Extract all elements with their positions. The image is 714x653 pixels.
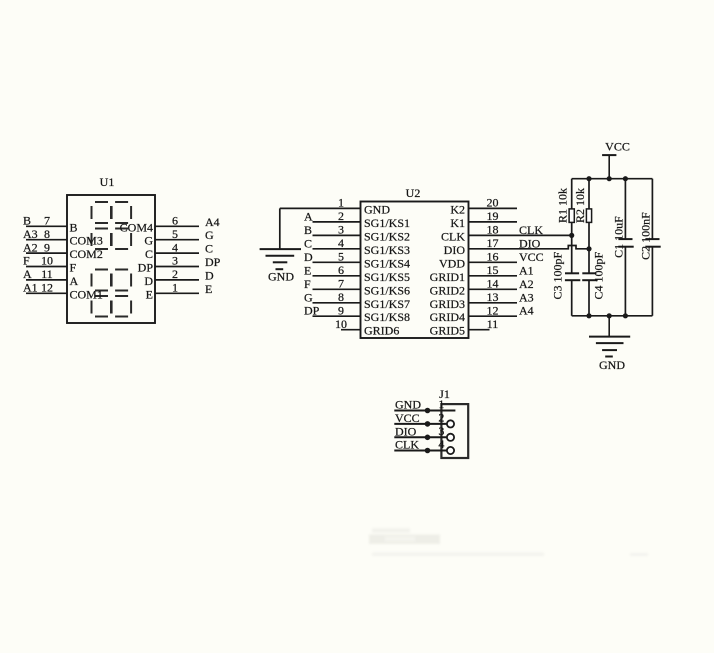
left GND label <box>268 270 294 284</box>
U2 pin number 1 <box>338 196 344 210</box>
U1 pin 5 wire (G) <box>155 239 199 241</box>
svg-text:SG1/KS6: SG1/KS6 <box>364 283 410 297</box>
U1 pin number 8 <box>44 227 50 241</box>
svg-text:1: 1 <box>338 196 344 210</box>
resistor R1 10k <box>569 179 574 236</box>
U2 pin name GND <box>364 202 390 216</box>
svg-text:C4 100pF: C4 100pF <box>592 251 606 299</box>
net label GND <box>395 398 421 412</box>
connector J1 body <box>441 404 468 458</box>
U1 pin 8 wire (COM3) <box>26 239 67 241</box>
U2 pin 18 wire (CLK) <box>469 234 572 236</box>
U2 pin number 17 <box>487 236 499 250</box>
U1 pin name COM3 <box>70 234 103 248</box>
svg-text:D: D <box>144 274 153 288</box>
net label D <box>304 250 313 264</box>
svg-text:GND: GND <box>268 270 294 284</box>
U1 pin name COM4 <box>120 220 153 234</box>
U1 pin name F <box>70 261 77 275</box>
U2 pin 3 wire (SG1/KS2) <box>313 234 361 236</box>
net label DP <box>205 255 221 269</box>
svg-text:F: F <box>23 254 30 268</box>
U2 pin 15 wire (GRID1) <box>469 275 518 277</box>
svg-text:COM2: COM2 <box>70 247 103 261</box>
svg-text:10: 10 <box>335 317 347 331</box>
U1 pin number 10 <box>41 254 53 268</box>
svg-text:GRID5: GRID5 <box>430 324 465 338</box>
U1 pin name G <box>144 234 153 248</box>
U1 pin 7 wire (B) <box>26 225 67 227</box>
svg-text:GRID4: GRID4 <box>430 310 465 324</box>
svg-text:19: 19 <box>487 209 499 223</box>
U1 pin number 1 <box>172 281 178 295</box>
svg-text:VCC: VCC <box>519 250 544 264</box>
net label F <box>304 277 311 291</box>
U1 pin name DP <box>138 261 154 275</box>
U2 reference designator <box>406 186 421 200</box>
C4 value label <box>592 251 606 299</box>
svg-text:G: G <box>144 234 153 248</box>
U2 pin name GRID3 <box>430 297 465 311</box>
svg-text:C1 10uF: C1 10uF <box>612 216 626 258</box>
U2 pin number 18 <box>487 223 499 237</box>
svg-text:10: 10 <box>41 254 53 268</box>
svg-text:9: 9 <box>338 303 344 317</box>
VCC power symbol <box>602 155 616 179</box>
net label D <box>205 268 214 282</box>
svg-text:5: 5 <box>338 250 344 264</box>
U2 pin 14 wire (GRID2) <box>469 288 518 290</box>
svg-text:B: B <box>304 223 312 237</box>
svg-text:K2: K2 <box>450 202 465 216</box>
U1 pin number 5 <box>172 227 178 241</box>
svg-text:A4: A4 <box>205 215 220 229</box>
net label A2 <box>519 277 534 291</box>
U1 pin 1 wire (E) <box>155 292 199 294</box>
U2 pin 8 wire (SG1/KS7) <box>313 302 361 304</box>
U1 pin number 4 <box>172 240 178 254</box>
net label A3 <box>519 290 534 304</box>
svg-text:C3 100pF: C3 100pF <box>551 251 565 299</box>
R2 value label <box>573 188 587 223</box>
U2 pin name SG1/KS8 <box>364 310 410 324</box>
U2 pin name DIO <box>444 243 466 257</box>
svg-text:DP: DP <box>205 255 221 269</box>
U2 pin name SG1/KS2 <box>364 229 410 243</box>
junction bottom rail at C4 <box>586 313 591 318</box>
U2 pin number 2 <box>338 209 344 223</box>
U1 pin number 9 <box>44 240 50 254</box>
R1 value label <box>555 188 569 223</box>
svg-text:VCC: VCC <box>605 140 630 154</box>
right GND label <box>599 358 625 372</box>
U2 pin number 16 <box>487 250 499 264</box>
U2 pin number 20 <box>487 196 499 210</box>
U1 seven-segment digit 4 <box>112 270 132 317</box>
net label A2 <box>23 240 38 254</box>
svg-text:F: F <box>304 277 311 291</box>
svg-text:SG1/KS1: SG1/KS1 <box>364 216 410 230</box>
net label A <box>23 267 32 281</box>
U2 pin number 11 <box>487 317 499 331</box>
svg-text:A1: A1 <box>519 263 534 277</box>
U1 reference designator <box>100 175 115 189</box>
svg-text:R1 10k: R1 10k <box>555 188 569 223</box>
svg-text:E: E <box>304 263 311 277</box>
svg-text:7: 7 <box>44 214 50 228</box>
U2 pin 7 wire (SG1/KS6) <box>313 288 361 290</box>
U2 pin 5 wire (SG1/KS4) <box>313 261 361 263</box>
U2 pin name GRID5 <box>430 324 465 338</box>
net label VCC <box>519 250 544 264</box>
U2 pin name K1 <box>450 216 465 230</box>
svg-text:GND: GND <box>364 202 390 216</box>
wire U2 pin1 to ground <box>279 208 281 249</box>
svg-text:CLK: CLK <box>519 223 543 237</box>
svg-text:U2: U2 <box>406 186 421 200</box>
svg-text:DIO: DIO <box>519 236 541 250</box>
U2 pin 10 wire (GRID6) <box>341 329 361 331</box>
svg-text:G: G <box>304 290 313 304</box>
J1 reference designator <box>439 387 450 401</box>
U2 pin 12 wire (GRID4) <box>469 315 518 317</box>
ground (right GND) <box>589 316 630 357</box>
svg-text:7: 7 <box>338 277 344 291</box>
U1 pin name C <box>145 247 153 261</box>
svg-text:12: 12 <box>487 303 499 317</box>
net label DIO <box>395 424 417 438</box>
net label DIO <box>519 236 541 250</box>
U2 pin number 4 <box>338 236 344 250</box>
junction bottom rail at C1 <box>623 313 628 318</box>
svg-text:A: A <box>304 209 313 223</box>
J1 pin number 3 <box>438 424 444 438</box>
junction top rail at R2 <box>586 176 591 181</box>
svg-text:GRID3: GRID3 <box>430 297 465 311</box>
U2 pin number 13 <box>487 290 499 304</box>
svg-text:8: 8 <box>44 227 50 241</box>
U2 pin name GRID4 <box>430 310 465 324</box>
U1 pin 3 wire (DP) <box>155 266 199 268</box>
svg-text:E: E <box>205 282 212 296</box>
net label A1 <box>519 263 534 277</box>
svg-text:B: B <box>70 220 78 234</box>
U1 pin number 2 <box>172 267 178 281</box>
capacitor C3 100pF <box>565 235 580 315</box>
U1 pin 6 wire (COM4) <box>155 225 199 227</box>
U2 pin number 19 <box>487 209 499 223</box>
junction bottom rail at GND <box>607 313 612 318</box>
J1 pin number 2 <box>438 410 444 424</box>
svg-text:C: C <box>205 242 213 256</box>
U2 pin 2 wire (SG1/KS1) <box>313 221 361 223</box>
svg-text:U1: U1 <box>100 175 115 189</box>
net label A <box>304 209 313 223</box>
svg-text:11: 11 <box>41 267 53 281</box>
net label CLK <box>519 223 543 237</box>
U2 pin 16 wire (VDD) <box>469 261 518 263</box>
net label B <box>304 223 312 237</box>
svg-text:D: D <box>205 268 214 282</box>
U2 pin number 5 <box>338 250 344 264</box>
U2 pin name GRID6 <box>364 324 399 338</box>
U2 pin 19 wire (K1) <box>469 221 518 223</box>
svg-text:K1: K1 <box>450 216 465 230</box>
svg-text:SG1/KS4: SG1/KS4 <box>364 256 410 270</box>
U2 pin 4 wire (SG1/KS3) <box>313 248 361 250</box>
svg-text:CLK: CLK <box>395 438 419 452</box>
svg-text:17: 17 <box>487 236 499 250</box>
J1 pin 4 contact circle <box>447 447 454 454</box>
svg-text:3: 3 <box>172 254 178 268</box>
J1 wire junction dot pin 1 <box>425 408 431 414</box>
svg-text:6: 6 <box>172 214 178 228</box>
svg-text:SG1/KS8: SG1/KS8 <box>364 310 410 324</box>
svg-text:A2: A2 <box>519 277 534 291</box>
svg-text:A2: A2 <box>23 240 38 254</box>
svg-text:A: A <box>70 274 79 288</box>
svg-text:9: 9 <box>44 240 50 254</box>
C3 value label <box>551 251 565 299</box>
U2 pin name K2 <box>450 202 465 216</box>
J1 pin 1 wire (GND) <box>394 410 455 412</box>
U2 pin number 8 <box>338 290 344 304</box>
J1 pin 3 wire (DIO) <box>394 436 447 438</box>
svg-text:SG1/KS2: SG1/KS2 <box>364 229 410 243</box>
U2 pin name GRID1 <box>430 270 465 284</box>
U2 pin name CLK <box>441 229 465 243</box>
C2 value label <box>638 212 652 260</box>
U2 pin number 14 <box>487 277 499 291</box>
net label A4 <box>519 304 534 318</box>
wire bottom rail <box>572 315 653 317</box>
U2 pin number 12 <box>487 303 499 317</box>
svg-text:F: F <box>70 261 77 275</box>
svg-text:D: D <box>304 250 313 264</box>
U1 pin 11 wire (A) <box>26 279 67 281</box>
svg-text:2: 2 <box>438 410 444 424</box>
svg-text:DP: DP <box>138 261 154 275</box>
U2 pin number 6 <box>338 263 344 277</box>
svg-text:2: 2 <box>338 209 344 223</box>
net label C <box>205 242 213 256</box>
svg-text:G: G <box>205 228 214 242</box>
svg-text:12: 12 <box>41 281 53 295</box>
net label E <box>205 282 212 296</box>
svg-text:COM1: COM1 <box>70 287 103 301</box>
U1 pin 4 wire (C) <box>155 252 199 254</box>
svg-text:C: C <box>304 236 312 250</box>
U2 pin name SG1/KS5 <box>364 270 410 284</box>
U2 pin 17 wire (DIO) <box>469 246 590 249</box>
U2 pin number 7 <box>338 277 344 291</box>
U1 seven-segment digit 1 <box>92 202 112 249</box>
svg-text:18: 18 <box>487 223 499 237</box>
svg-text:8: 8 <box>338 290 344 304</box>
U1 seven-segment digit 2 <box>112 202 132 249</box>
U2 pin name SG1/KS4 <box>364 256 410 270</box>
U1 pin name B <box>70 220 78 234</box>
svg-text:SG1/KS5: SG1/KS5 <box>364 270 410 284</box>
junction CLK/R1/C3 <box>569 233 574 238</box>
J1 wire junction dot pin 3 <box>425 435 431 441</box>
svg-text:1: 1 <box>438 397 444 411</box>
U2 pin name SG1/KS3 <box>364 243 410 257</box>
U2 pin name SG1/KS7 <box>364 297 410 311</box>
VCC label <box>605 140 630 154</box>
svg-text:GND: GND <box>599 358 625 372</box>
U1 pin name COM1 <box>70 287 103 301</box>
driver IC U2 body <box>361 202 469 339</box>
svg-text:6: 6 <box>338 263 344 277</box>
U1 pin 9 wire (COM2) <box>26 252 67 254</box>
svg-text:CLK: CLK <box>441 229 465 243</box>
U2 pin name VDD <box>439 256 465 270</box>
J1 pin number 4 <box>438 437 444 451</box>
svg-text:14: 14 <box>487 277 499 291</box>
svg-text:13: 13 <box>487 290 499 304</box>
svg-text:GRID6: GRID6 <box>364 324 399 338</box>
net label G <box>304 290 313 304</box>
U2 pin 9 wire (SG1/KS8) <box>313 315 361 317</box>
svg-text:DP: DP <box>304 304 320 318</box>
svg-text:GRID2: GRID2 <box>430 283 465 297</box>
svg-text:GND: GND <box>395 398 421 412</box>
net label A3 <box>23 227 38 241</box>
U2 pin number 15 <box>487 263 499 277</box>
svg-text:E: E <box>146 287 153 301</box>
svg-text:3: 3 <box>338 223 344 237</box>
svg-text:C2 100nF: C2 100nF <box>638 212 652 260</box>
capacitor C4 100pF <box>582 249 597 316</box>
J1 pin number 1 <box>438 397 444 411</box>
net label B <box>23 214 31 228</box>
U1 pin number 7 <box>44 214 50 228</box>
svg-text:SG1/KS3: SG1/KS3 <box>364 243 410 257</box>
U2 pin name GRID2 <box>430 283 465 297</box>
capacitor C1 10uF <box>618 179 633 316</box>
U2 pin 20 wire (K2) <box>469 207 518 209</box>
U1 pin name D <box>144 274 153 288</box>
svg-text:DIO: DIO <box>444 243 466 257</box>
svg-text:R2 10k: R2 10k <box>573 188 587 223</box>
U1 pin number 11 <box>41 267 53 281</box>
svg-text:4: 4 <box>172 240 178 254</box>
svg-text:DIO: DIO <box>395 424 417 438</box>
svg-text:COM4: COM4 <box>120 220 153 234</box>
svg-text:C: C <box>145 247 153 261</box>
svg-text:A3: A3 <box>23 227 38 241</box>
svg-text:B: B <box>23 214 31 228</box>
U1 pin 12 wire (COM1) <box>26 292 67 294</box>
svg-text:A: A <box>23 267 32 281</box>
svg-text:A3: A3 <box>519 290 534 304</box>
U1 pin name A <box>70 274 79 288</box>
U2 pin 11 wire (GRID5) <box>469 329 490 331</box>
svg-text:15: 15 <box>487 263 499 277</box>
capacitor C2 100nF <box>645 179 660 316</box>
ground (left GND) <box>260 249 301 269</box>
J1 pin 4 wire (CLK) <box>394 450 447 452</box>
svg-text:4: 4 <box>438 437 444 451</box>
U2 pin 6 wire (SG1/KS5) <box>313 275 361 277</box>
U2 pin number 3 <box>338 223 344 237</box>
U1 pin number 12 <box>41 281 53 295</box>
net label CLK <box>395 438 419 452</box>
svg-text:SG1/KS7: SG1/KS7 <box>364 297 410 311</box>
U1 pin name COM2 <box>70 247 103 261</box>
C1 value label <box>612 216 626 258</box>
svg-text:20: 20 <box>487 196 499 210</box>
svg-text:16: 16 <box>487 250 499 264</box>
U2 pin number 10 <box>335 317 347 331</box>
svg-text:11: 11 <box>487 317 499 331</box>
svg-text:5: 5 <box>172 227 178 241</box>
net label E <box>304 263 311 277</box>
net label G <box>205 228 214 242</box>
U2 pin name SG1/KS1 <box>364 216 410 230</box>
junction top rail at VCC <box>607 176 612 181</box>
net label C <box>304 236 312 250</box>
U1 seven-segment digit 3 <box>92 270 112 317</box>
U2 pin name SG1/KS6 <box>364 283 410 297</box>
U1 pin name E <box>146 287 153 301</box>
svg-text:VCC: VCC <box>395 411 420 425</box>
svg-text:GRID1: GRID1 <box>430 270 465 284</box>
display U1 body <box>67 195 155 323</box>
U2 pin 13 wire (GRID3) <box>469 302 518 304</box>
svg-text:A1: A1 <box>23 281 38 295</box>
J1 wire junction dot pin 2 <box>425 421 431 427</box>
net label F <box>23 254 30 268</box>
svg-text:VDD: VDD <box>439 256 465 270</box>
resistor R2 10k <box>586 179 591 249</box>
J1 pin 3 contact circle <box>447 434 454 441</box>
svg-text:1: 1 <box>172 281 178 295</box>
svg-text:3: 3 <box>438 424 444 438</box>
junction DIO/R2/C4 <box>586 246 591 251</box>
J1 wire junction dot pin 4 <box>425 448 431 454</box>
J1 pin 2 wire (VCC) <box>394 423 447 425</box>
net label A1 <box>23 281 38 295</box>
net label VCC <box>395 411 420 425</box>
U1 pin 2 wire (D) <box>155 279 199 281</box>
U1 pin 10 wire (F) <box>26 266 67 268</box>
svg-text:4: 4 <box>338 236 344 250</box>
U2 pin 1 wire (GND) <box>280 207 361 209</box>
J1 pin 2 contact circle <box>447 420 454 427</box>
wire top rail <box>572 178 653 180</box>
U2 pin number 9 <box>338 303 344 317</box>
net label A4 <box>205 215 220 229</box>
junction top rail at C1 <box>623 176 628 181</box>
U1 pin number 3 <box>172 254 178 268</box>
U1 pin number 6 <box>172 214 178 228</box>
svg-text:2: 2 <box>172 267 178 281</box>
svg-text:COM3: COM3 <box>70 234 103 248</box>
svg-text:A4: A4 <box>519 304 534 318</box>
net label DP <box>304 304 320 318</box>
